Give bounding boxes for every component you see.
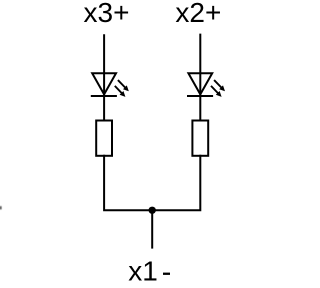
wire: x2+ terminal lead down through LED to resistor (right branch) bbox=[199, 34, 201, 121]
junction dot: x1 node bbox=[149, 207, 156, 214]
LED right: emission arrow 2 bbox=[211, 86, 222, 97]
LED left: cathode bar bbox=[91, 95, 117, 97]
LED left: emission arrow 1 bbox=[118, 80, 129, 91]
LED right: anode triangle bbox=[188, 73, 212, 94]
stray cropped mark at left edge bbox=[0, 206, 2, 209]
svg-text:x1: x1 bbox=[128, 256, 158, 287]
LED right: cathode bar bbox=[187, 95, 213, 97]
svg-text:x2+: x2+ bbox=[175, 0, 221, 28]
LED left: emission arrow 2 bbox=[115, 86, 126, 97]
resistor left (x3 branch) bbox=[96, 121, 112, 156]
wire: junction down to x1- terminal bbox=[151, 210, 153, 248]
LED right: emission arrow 1 bbox=[214, 80, 225, 91]
LED left: anode triangle bbox=[92, 73, 116, 94]
terminal label x1- dash bbox=[163, 273, 170, 275]
svg-text:x3+: x3+ bbox=[84, 0, 130, 28]
wire: x3+ terminal lead down through LED to resistor (left branch) bbox=[103, 34, 105, 120]
resistor right (x2 branch) bbox=[192, 121, 208, 156]
wire: left resistor down, bottom bus, up to right resistor bbox=[104, 155, 200, 211]
